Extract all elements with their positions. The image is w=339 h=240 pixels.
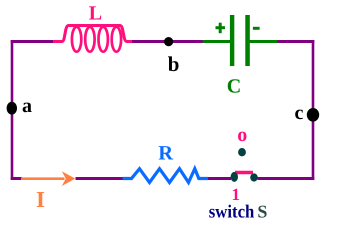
svg-text:R: R xyxy=(158,143,173,165)
svg-text:S: S xyxy=(257,202,267,222)
svg-text:b: b xyxy=(168,52,180,76)
switch contact left xyxy=(231,172,238,182)
svg-text:1: 1 xyxy=(232,185,241,204)
capacitor C right plate xyxy=(245,15,250,66)
wire bottom mid-left segment xyxy=(76,177,124,180)
svg-text:o: o xyxy=(237,124,247,146)
wire top-right segment xyxy=(278,40,315,43)
svg-text:C: C xyxy=(227,76,241,98)
inductor L loop 3 xyxy=(99,27,108,52)
wire bottom mid-right segment xyxy=(208,177,231,180)
wire left vertical a-side xyxy=(11,40,14,180)
svg-text:L: L xyxy=(89,3,102,25)
wire top-left segment xyxy=(11,40,54,43)
node a xyxy=(7,102,17,115)
current arrow I head xyxy=(62,171,76,186)
node b xyxy=(164,37,173,46)
wire right vertical c-side xyxy=(312,40,315,180)
inductor L loop 4 xyxy=(112,27,121,52)
node c xyxy=(307,108,319,122)
svg-text:a: a xyxy=(22,95,32,117)
svg-text:c: c xyxy=(295,102,304,124)
inductor L coil body xyxy=(53,26,133,42)
wire bottom-right segment xyxy=(258,177,315,180)
current arrow I shaft xyxy=(21,177,65,180)
capacitor C left plate xyxy=(230,15,234,66)
capacitor C right lead xyxy=(250,40,279,43)
svg-text:I: I xyxy=(36,187,45,212)
wire bottom-left stub xyxy=(11,177,22,180)
switch S blade (closed to position 1) xyxy=(235,171,253,174)
resistor R zigzag xyxy=(123,169,209,183)
inductor L loop 2 xyxy=(85,27,94,52)
svg-text:switch: switch xyxy=(209,202,255,222)
inductor L loop 1 xyxy=(72,27,81,52)
switch contact right xyxy=(250,173,258,181)
minus sign polarity xyxy=(253,27,260,30)
switch open-position contact o xyxy=(238,148,246,156)
plus sign polarity xyxy=(216,26,226,29)
capacitor C left lead xyxy=(203,40,230,43)
wire top-middle segment xyxy=(132,40,204,43)
